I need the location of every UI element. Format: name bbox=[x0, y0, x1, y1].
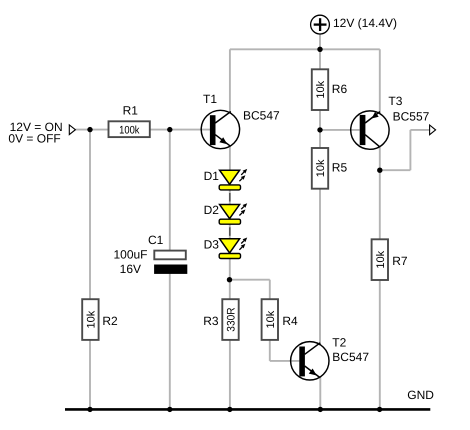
wire power stem bbox=[319, 34, 321, 50]
power supply terminal 12V bbox=[311, 15, 330, 34]
wire output horizontal from node B bbox=[380, 169, 411, 171]
svg-text:10k: 10k bbox=[265, 310, 277, 328]
svg-text:R3: R3 bbox=[203, 314, 219, 328]
svg-text:T2: T2 bbox=[332, 336, 346, 350]
wire left column x=90 (input node to ground) bbox=[89, 130, 91, 410]
wire top supply rail bbox=[230, 48, 380, 50]
wire D2 to D3 bbox=[229, 224, 231, 239]
capacitor C1 top plate bbox=[154, 251, 186, 260]
svg-text:D1: D1 bbox=[204, 169, 220, 183]
svg-text:16V: 16V bbox=[120, 262, 141, 276]
node supply rail junction bbox=[317, 47, 322, 52]
wire rail to R6 bbox=[319, 49, 321, 69]
wire lead stub below D1 bbox=[229, 193, 231, 202]
LED D2 bbox=[219, 203, 247, 224]
svg-text:R1: R1 bbox=[123, 104, 139, 118]
wire R4 bottom drop bbox=[269, 340, 271, 361]
wire T1 emitter to D1 bbox=[229, 147, 231, 171]
resistor R3 bbox=[222, 299, 238, 340]
resistor R4 bbox=[262, 299, 278, 340]
wire T3 base bbox=[320, 129, 360, 131]
wire rail to T3 emitter bbox=[379, 49, 381, 113]
svg-text:0V = OFF: 0V = OFF bbox=[8, 131, 60, 145]
svg-text:10k: 10k bbox=[375, 250, 387, 268]
LED D1 bbox=[219, 169, 247, 190]
svg-text:R7: R7 bbox=[392, 254, 408, 268]
svg-text:12V (14.4V): 12V (14.4V) bbox=[333, 16, 397, 30]
svg-text:10k: 10k bbox=[315, 80, 327, 98]
svg-text:100k: 100k bbox=[119, 124, 140, 136]
transistor T3 bbox=[351, 111, 389, 149]
node R6-R5-T3 base junction bbox=[317, 127, 322, 132]
svg-text:R2: R2 bbox=[102, 314, 118, 328]
svg-text:330R: 330R bbox=[226, 307, 238, 331]
wire R3 to ground bbox=[229, 340, 231, 409]
wire T2 emitter to ground bbox=[319, 376, 321, 409]
LED D3 bbox=[219, 238, 247, 259]
resistor R7 bbox=[372, 239, 388, 280]
node ground x230 bbox=[227, 407, 232, 412]
wire output riser bbox=[409, 130, 411, 170]
wire R6 to R5 bbox=[319, 109, 321, 148]
svg-text:T3: T3 bbox=[388, 94, 402, 108]
node ground x380 bbox=[377, 407, 382, 412]
svg-text:R6: R6 bbox=[332, 82, 348, 96]
svg-text:T1: T1 bbox=[203, 92, 217, 106]
wire D1 to D2 bbox=[229, 190, 231, 205]
wire to T2 base bbox=[270, 360, 300, 362]
resistor R5 bbox=[312, 148, 328, 189]
resistor R6 bbox=[312, 69, 328, 110]
wire D3 to R3 bbox=[229, 259, 231, 300]
transistor T2 bbox=[291, 342, 329, 380]
node input junction x90 bbox=[87, 127, 92, 132]
transistor T1 bbox=[201, 110, 239, 148]
output terminal bbox=[430, 125, 436, 135]
node ground x320 bbox=[318, 407, 323, 412]
input terminal bbox=[69, 125, 75, 135]
node ground x170 bbox=[167, 407, 172, 412]
svg-text:R4: R4 bbox=[282, 314, 298, 328]
node ground x90 bbox=[87, 407, 92, 412]
wire C1 column x=170 upper bbox=[169, 130, 171, 252]
svg-text:100uF: 100uF bbox=[113, 247, 147, 261]
node T3 collector junction bbox=[377, 168, 382, 173]
svg-text:C1: C1 bbox=[148, 233, 164, 247]
svg-text:10k: 10k bbox=[315, 159, 327, 177]
svg-text:BC547: BC547 bbox=[332, 350, 369, 364]
svg-text:D2: D2 bbox=[204, 203, 220, 217]
svg-text:BC557: BC557 bbox=[393, 109, 430, 123]
wire T1 collector riser bbox=[229, 49, 231, 113]
wire input row bbox=[75, 129, 210, 131]
resistor R2 bbox=[82, 299, 98, 340]
wire to output terminal bbox=[410, 129, 429, 131]
svg-text:BC547: BC547 bbox=[243, 109, 280, 123]
ground bbox=[65, 408, 430, 411]
svg-text:GND: GND bbox=[407, 388, 434, 402]
wire C1 column x=170 lower bbox=[169, 273, 171, 410]
node R1 output junction x170 bbox=[167, 127, 172, 132]
resistor R1 bbox=[109, 121, 150, 137]
wire R7 to ground bbox=[379, 280, 381, 410]
node D3-R3-R4 junction bbox=[227, 277, 232, 282]
capacitor C1 bottom plate bbox=[154, 265, 187, 274]
wire R4 top drop bbox=[269, 280, 271, 300]
wire R5 to T2 collector bbox=[319, 188, 321, 346]
wire lead stub below D2 bbox=[229, 227, 231, 236]
wire node A to R4 horizontal bbox=[230, 279, 270, 281]
svg-text:D3: D3 bbox=[204, 238, 220, 252]
svg-text:10k: 10k bbox=[85, 310, 97, 328]
svg-text:R5: R5 bbox=[332, 161, 348, 175]
wire T3 collector to R7 bbox=[379, 147, 381, 240]
